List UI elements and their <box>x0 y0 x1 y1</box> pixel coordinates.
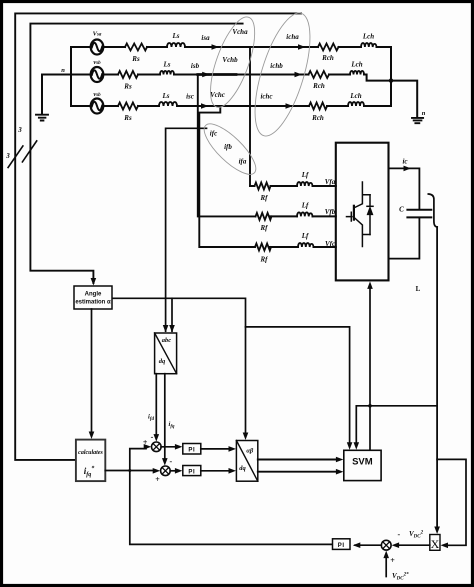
op block abc to dq <box>155 333 177 374</box>
svg-text:+: + <box>155 475 160 484</box>
svg-text:ichc: ichc <box>260 93 272 101</box>
arrow top sense into calculates <box>89 432 95 440</box>
svg-text:-: - <box>151 433 154 442</box>
controller PI1 <box>183 444 201 455</box>
arrow angle into ab-dq <box>243 433 249 441</box>
svg-text:αβ: αβ <box>246 448 254 455</box>
svg-text:Angle: Angle <box>85 292 102 298</box>
wire dc link positive (ic) <box>389 168 420 209</box>
arrow ifd into SJ1 <box>154 434 160 442</box>
svg-text:+: + <box>143 438 148 447</box>
arrow upper ab into SVM <box>336 457 344 463</box>
inductor Lch (phase c load) <box>348 102 364 106</box>
resistor Rch (phase a load) <box>318 44 338 51</box>
wire angle output line <box>112 298 246 434</box>
svg-text:Vcha: Vcha <box>232 28 248 36</box>
op block alphabeta to dq <box>236 441 257 482</box>
resistor Rs (phase B) <box>118 71 138 78</box>
wire top sense line B (load voltages bundle to angle estimation) <box>30 24 242 283</box>
ellipse bundle if <box>197 117 262 182</box>
wire X box to SJ3 <box>397 544 430 546</box>
svg-text:Lf: Lf <box>301 232 309 240</box>
svg-text:Rs: Rs <box>131 55 140 63</box>
capacitor C <box>407 210 431 218</box>
wire if sense jog to abc-dq <box>166 128 207 331</box>
wire SJ3 to PI3 <box>355 544 381 546</box>
wire Vdc sense vertical <box>436 227 438 528</box>
arrow angle into SVM <box>347 442 353 450</box>
wire phase B thick segment <box>198 73 236 76</box>
arrow ic <box>404 166 412 172</box>
arrow angle into abc-dq <box>169 325 175 333</box>
wire phase A row <box>103 46 318 48</box>
resistor Rch (phase c load) <box>309 103 327 110</box>
svg-text:VDC2: VDC2 <box>409 530 424 540</box>
svg-text:Ls: Ls <box>163 61 171 69</box>
svg-text:3: 3 <box>17 126 22 134</box>
transistor Q1 (IGBT) <box>355 182 370 247</box>
svg-text:Ls: Ls <box>172 32 180 40</box>
multiplier X box <box>430 535 440 551</box>
inductor Lch (phase a load) <box>361 43 376 47</box>
summer SJ1 <box>152 442 162 452</box>
svg-text:-: - <box>169 457 172 466</box>
arrow isb <box>202 72 210 78</box>
svg-text:ifa: ifa <box>239 158 247 166</box>
svg-text:X: X <box>431 537 440 551</box>
arrow ifq* into SJ2 <box>153 468 161 474</box>
controller PI2 <box>183 466 201 476</box>
arrow PI1 out into ab-dq <box>229 446 237 452</box>
resistor Rf (phase a) <box>255 183 271 190</box>
ground (source neutral) <box>36 115 48 121</box>
wire filter row c <box>270 246 336 248</box>
block SVM <box>344 450 381 480</box>
wire phase c load end <box>327 105 391 107</box>
svg-text:ichb: ichb <box>270 62 283 70</box>
arrow into angle box <box>91 278 97 286</box>
wire phase B tap to filter row b <box>198 75 256 217</box>
arrow Vdc ref into SJ3 <box>383 551 389 559</box>
svg-text:isb: isb <box>191 62 200 70</box>
resistor Rs (phase A) <box>125 44 147 51</box>
svg-text:SVM: SVM <box>352 457 373 468</box>
summer SJ3 <box>381 540 391 550</box>
wire PI2 to ab-dq <box>201 470 231 472</box>
svg-text:ifb: ifb <box>224 143 232 151</box>
wire phase A tap to filter row a <box>249 47 251 186</box>
arrow isa <box>212 44 220 50</box>
wire Vdc sense bracket <box>428 194 437 227</box>
arrow ifq into SJ2 <box>162 458 168 466</box>
source vsc <box>91 99 104 114</box>
wire Vdc branch to multiplier right input <box>437 459 466 545</box>
node 3-phase slash on line B <box>22 141 36 162</box>
ellipse bundle ich <box>244 7 322 142</box>
svg-text:n: n <box>61 67 65 74</box>
inductor Lch (phase b load) <box>350 71 364 75</box>
node junction dot gating/Vdc <box>368 404 372 408</box>
source vsb <box>91 67 104 82</box>
converter box U1 <box>336 143 389 281</box>
diode D1 (antiparallel) <box>369 195 371 235</box>
svg-text:icha: icha <box>286 33 299 41</box>
resistor Rs (phase C) <box>118 103 138 110</box>
wire ab-dq to SVM upper <box>258 459 338 461</box>
wire ifd output <box>155 374 157 437</box>
inductor Lf (phase c) <box>298 243 313 247</box>
wire angle branch to SVM <box>246 327 350 444</box>
svg-text:Lf: Lf <box>301 171 309 179</box>
svg-text:vsb: vsb <box>93 59 101 66</box>
svg-text:abc: abc <box>162 337 172 344</box>
svg-text:L: L <box>416 285 421 293</box>
svg-text:vsb: vsb <box>93 91 101 98</box>
svg-text:Vchc: Vchc <box>210 91 225 99</box>
ground (load neutral n) <box>412 118 423 123</box>
svg-text:ifq: ifq <box>169 421 175 430</box>
svg-text:ic: ic <box>402 158 407 166</box>
arrow SJ3 out into PI3 <box>353 542 361 548</box>
svg-text:Lf: Lf <box>301 202 309 210</box>
arrow SJ2 out into PI2 <box>175 468 183 474</box>
inductor Lf (phase a) <box>297 182 312 186</box>
wire Vdc ref input <box>385 556 387 577</box>
arrow Vdc into SVM <box>354 442 360 450</box>
block angle estimation <box>74 286 112 309</box>
arrow lower ab into SVM <box>336 469 344 475</box>
svg-text:Rf: Rf <box>260 224 269 232</box>
wire ifd ref from PI3 loop <box>130 449 333 545</box>
arrow ichc <box>286 103 294 109</box>
svg-text:PI: PI <box>338 543 345 549</box>
node junction dot ifq* cross <box>128 469 131 472</box>
arrow PI2 out into ab-dq <box>229 468 237 474</box>
wire Vdc to SVM horizontal <box>356 406 437 445</box>
inductor Ls (phase A) <box>167 43 185 47</box>
svg-text:ifd: ifd <box>148 414 154 423</box>
svg-text:Ls: Ls <box>162 92 170 100</box>
summer SJ2 <box>161 466 171 476</box>
wire SVM gating up to converter <box>369 288 371 451</box>
svg-text:3: 3 <box>5 152 10 160</box>
svg-text:+: + <box>390 556 395 565</box>
resistor Rf (phase b) <box>256 213 272 220</box>
svg-text:dq: dq <box>159 358 166 365</box>
node 3-phase slash on line A <box>8 146 23 168</box>
wire calculates output to SJ2 <box>105 470 155 472</box>
resistor Rf (phase c) <box>255 244 271 251</box>
svg-text:-: - <box>397 530 400 539</box>
svg-text:dq: dq <box>239 465 246 472</box>
svg-text:Lch: Lch <box>362 33 374 41</box>
controller PI3 <box>333 539 351 550</box>
arrow Vdc into X box <box>434 527 440 535</box>
svg-text:Rch: Rch <box>311 114 324 122</box>
svg-text:Rch: Rch <box>312 82 325 90</box>
wire phase a load end <box>339 47 392 106</box>
svg-text:Rf: Rf <box>260 194 269 202</box>
svg-text:Vfc: Vfc <box>325 240 335 248</box>
wire neutral to ground <box>42 75 71 115</box>
arrow Vdc into X box right <box>441 543 449 549</box>
svg-text:isc: isc <box>186 93 194 101</box>
svg-text:calculates: calculates <box>78 450 103 456</box>
svg-text:ifc: ifc <box>210 130 217 138</box>
arrow ichb <box>295 72 303 78</box>
svg-text:Rs: Rs <box>123 83 132 91</box>
svg-text:Vchb: Vchb <box>222 56 238 64</box>
svg-text:PI: PI <box>188 469 195 475</box>
wire filter row b <box>271 215 336 217</box>
svg-text:PI: PI <box>188 447 195 453</box>
inductor Ls (phase B) <box>160 71 174 75</box>
ellipse bundle Vch <box>197 7 321 181</box>
wire phase C hook tap to filter row c <box>199 106 255 247</box>
node junction dot load neutral <box>389 78 393 82</box>
arrow X out into SJ3 <box>392 542 400 548</box>
wire angle box to calculates box <box>91 309 93 434</box>
wire SJ1 to PI1 <box>161 446 177 448</box>
wire dc link negative return <box>389 217 420 258</box>
svg-text:Vfa: Vfa <box>325 178 336 186</box>
svg-text:estimation α: estimation α <box>75 300 111 306</box>
wire angle drop to abc-dq <box>171 298 173 331</box>
svg-text:Rf: Rf <box>260 256 269 264</box>
wire filter row a <box>250 185 336 187</box>
arrow SJ1 out into PI1 <box>175 444 183 450</box>
arrow ifabc into abc-dq <box>163 325 169 333</box>
arrow gating into converter <box>367 281 373 289</box>
wire SJ2 to PI2 <box>170 470 177 472</box>
svg-text:Lch: Lch <box>349 92 361 100</box>
svg-text:Lch: Lch <box>350 61 362 69</box>
svg-text:Vfb: Vfb <box>325 208 336 216</box>
svg-text:VDC2*: VDC2* <box>392 572 409 582</box>
arrow icha <box>298 44 306 50</box>
svg-text:n: n <box>422 110 426 117</box>
svg-text:Rs: Rs <box>123 114 132 122</box>
wire top sense line A (load currents bundle to calculates box) <box>15 13 301 460</box>
wire phase B row <box>103 74 308 76</box>
wire source neutral bus <box>70 47 72 106</box>
wire ab-dq to SVM lower <box>258 471 338 473</box>
wire PI1 to ab-dq <box>201 448 231 450</box>
source Vsa <box>91 40 104 55</box>
inductor Lf (phase b) <box>297 212 312 216</box>
svg-text:Rch: Rch <box>321 54 334 62</box>
resistor Rch (phase b load) <box>309 71 329 78</box>
block calculates ifq* <box>76 440 105 482</box>
svg-text:isa: isa <box>201 34 210 42</box>
wire phase b load to neutral <box>329 75 417 118</box>
svg-text:C: C <box>399 206 404 214</box>
arrow isc <box>201 103 209 109</box>
arrow ifd* into SJ1 <box>144 444 152 450</box>
wire ifq output <box>164 374 166 460</box>
svg-text:Vsa: Vsa <box>93 31 102 38</box>
wire phase C row <box>103 105 309 107</box>
inductor Ls (phase C) <box>159 102 177 106</box>
